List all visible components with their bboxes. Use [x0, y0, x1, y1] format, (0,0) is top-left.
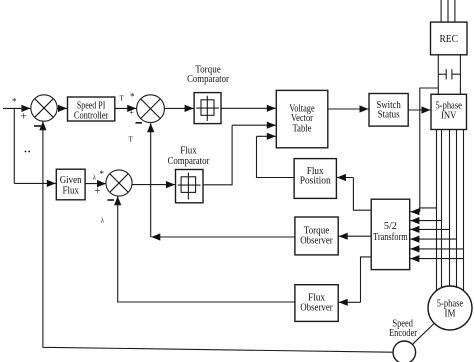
svg-text:REC: REC: [439, 33, 458, 45]
svg-text:+: +: [94, 185, 101, 197]
svg-text:Observer: Observer: [300, 303, 333, 314]
svg-text:Observer: Observer: [300, 235, 333, 246]
svg-text:Transform: Transform: [373, 232, 408, 243]
svg-text:*: *: [130, 91, 135, 101]
svg-text:Controller: Controller: [74, 109, 109, 121]
svg-text:λ: λ: [93, 173, 97, 181]
svg-text:Flux: Flux: [62, 185, 79, 196]
svg-text:*: *: [12, 97, 17, 107]
svg-text:Comparator: Comparator: [168, 156, 210, 167]
svg-text:5/2: 5/2: [384, 221, 397, 232]
svg-text:IM: IM: [445, 309, 457, 320]
svg-text:+: +: [21, 110, 28, 122]
svg-text:Vector: Vector: [291, 113, 314, 124]
svg-text:Position: Position: [300, 176, 332, 187]
svg-text:Encoder: Encoder: [389, 328, 417, 339]
svg-text:T: T: [129, 136, 134, 144]
svg-text:Table: Table: [293, 123, 312, 134]
svg-text:T: T: [120, 95, 125, 103]
svg-text:Status: Status: [378, 110, 400, 121]
svg-text:+: +: [129, 108, 134, 117]
svg-text:Comparator: Comparator: [187, 74, 229, 85]
svg-text:λ: λ: [101, 216, 105, 224]
svg-text:*: *: [100, 169, 105, 179]
svg-text:INV: INV: [441, 111, 457, 122]
